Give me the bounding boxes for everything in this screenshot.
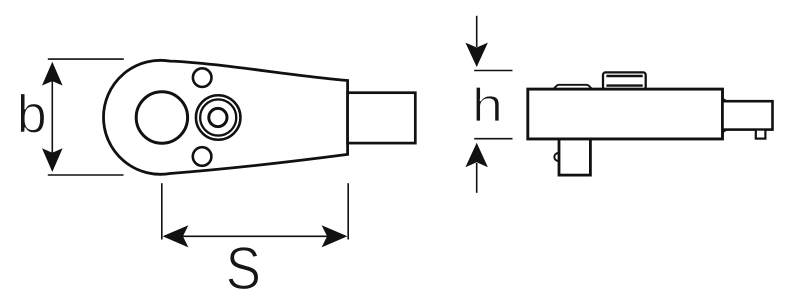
tang rectangle (top view): [348, 93, 416, 143]
dimension S: right extension line: [347, 183, 349, 239]
side view: square drive: [559, 139, 590, 175]
drive boss inner circle: [209, 108, 227, 126]
dimension b: bottom extension line: [48, 174, 124, 176]
side view: extension bottom chamfer: [723, 130, 727, 133]
dimension h: bottom reference line: [474, 138, 512, 140]
upper pin hole: [193, 68, 212, 87]
svg-text:h: h: [472, 79, 503, 132]
side view: extension top chamfer: [723, 99, 727, 102]
svg-text:S: S: [226, 235, 261, 301]
dimension S: arrow line: [180, 235, 330, 237]
dimension b: top arrowhead: [42, 62, 63, 86]
side view: button upper knurl line: [606, 75, 642, 77]
dimension h: lower arrowhead (pointing up): [465, 143, 488, 167]
head outline: [103, 60, 347, 174]
dimension h: upper arrowhead (pointing down): [465, 43, 488, 67]
dimension h: upper arrow shaft: [476, 16, 478, 47]
drive boss middle ring: [200, 99, 236, 135]
side view: detent ball: [554, 153, 562, 161]
dimension S: left extension line: [161, 183, 163, 239]
side view: main body: [528, 89, 723, 139]
dimension b: top extension line: [48, 58, 124, 60]
side view: release button: [603, 72, 646, 89]
dimension b: arrow shaft: [51, 66, 53, 168]
dimension S: left arrowhead: [163, 225, 189, 247]
dimension b: bottom arrowhead: [42, 148, 63, 172]
dimension h: lower arrow shaft: [476, 163, 478, 193]
dimension h: top reference line: [474, 70, 512, 72]
svg-text:b: b: [17, 84, 47, 144]
side view: detent pin: [756, 130, 766, 139]
large through-hole circle: [136, 92, 187, 143]
side view: button lower knurl line: [606, 84, 642, 86]
lower pin hole: [193, 147, 212, 166]
side view: right extension: [723, 101, 773, 129]
drive boss outer ring: [196, 95, 241, 140]
dimension S: right arrowhead: [322, 225, 348, 247]
side view: reversing lever bump: [553, 85, 592, 89]
